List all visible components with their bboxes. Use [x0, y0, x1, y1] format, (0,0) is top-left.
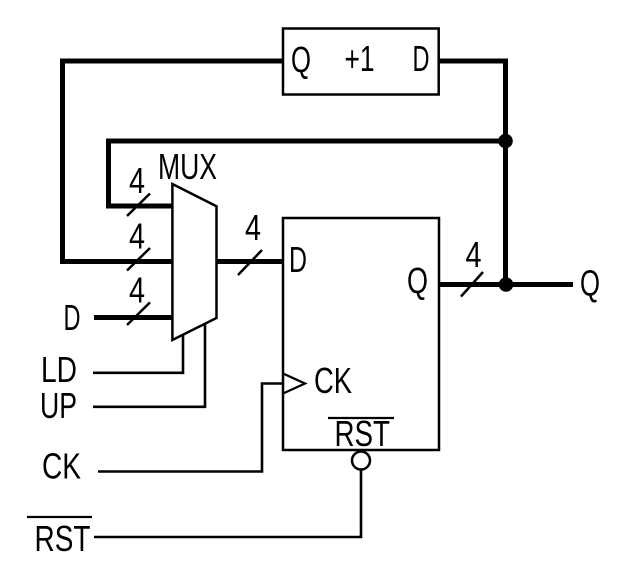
wire: UP select to MUX — [93, 324, 205, 407]
svg-text:+1: +1 — [345, 38, 375, 79]
node: junction of Q output with vertical bus (x=506,y=284.5) — [499, 277, 514, 292]
wire: +1 D pin to vertical output bus (x=505) down to Q node — [439, 61, 506, 285]
svg-text:4: 4 — [129, 160, 145, 201]
register U3 (D flip-flop) body — [283, 218, 439, 450]
bus width slash on MUX output — [238, 250, 262, 275]
incrementer U1 (+1 block) body — [283, 29, 439, 95]
wire: LD select to MUX — [93, 335, 183, 373]
svg-text:CK: CK — [314, 360, 352, 401]
svg-text:D: D — [289, 239, 307, 280]
overline of RST port label — [27, 516, 92, 518]
bus width slash on MUX input C — [127, 302, 150, 325]
wire: RST input to register reset bubble — [94, 470, 361, 538]
svg-text:Q: Q — [407, 260, 428, 301]
svg-text:4: 4 — [129, 215, 145, 256]
wire: feedback bus from +1 Q pin, left and down to MUX input B — [63, 61, 284, 262]
svg-text:UP: UP — [40, 385, 77, 426]
svg-text:D: D — [64, 298, 81, 338]
wire: CK input to register clock pin — [98, 384, 282, 472]
wire: hold feedback from output bus, left and down to MUX input A — [109, 141, 506, 206]
wire: MUX output bus to register D input — [217, 259, 284, 264]
wire: external D input bus to MUX input C — [94, 315, 172, 320]
svg-text:4: 4 — [129, 269, 145, 310]
svg-text:LD: LD — [41, 350, 77, 390]
bus width slash on MUX input B — [127, 248, 150, 271]
svg-text:4: 4 — [466, 234, 482, 275]
node: junction of +1 D bus with hold feedback (x=505.5,y=141) — [498, 134, 513, 149]
wire: register Q output bus to output Q — [439, 282, 573, 287]
svg-text:MUX: MUX — [158, 146, 217, 187]
svg-text:RST: RST — [35, 519, 91, 559]
clock edge triangle on U3 CK pin — [283, 374, 305, 394]
svg-text:Q: Q — [291, 40, 311, 80]
svg-text:CK: CK — [42, 446, 81, 486]
active-low bubble on U3 RST pin — [352, 452, 370, 470]
overline of RST pin label — [328, 417, 394, 419]
svg-text:4: 4 — [245, 207, 261, 248]
bus width slash on MUX input A — [127, 194, 150, 217]
multiplexer U2 (MUX) trapezoid body — [172, 184, 216, 340]
bus width slash on register Q output — [461, 272, 483, 297]
svg-text:D: D — [413, 39, 430, 79]
svg-text:Q: Q — [580, 263, 600, 303]
svg-text:RST: RST — [335, 414, 390, 454]
